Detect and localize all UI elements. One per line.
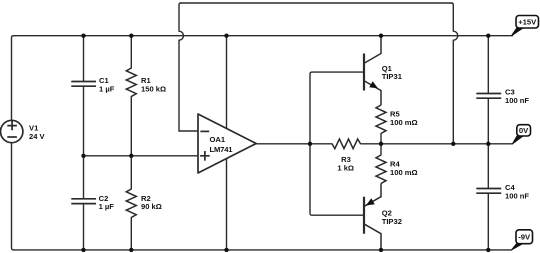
wire R2 branch xyxy=(130,156,132,250)
label Q1 xyxy=(382,64,403,81)
svg-text:150 kΩ: 150 kΩ xyxy=(141,85,166,94)
resistor R2 xyxy=(126,189,136,218)
svg-text:-9V: -9V xyxy=(518,233,531,242)
wire mid vertical through op-amp xyxy=(226,36,228,250)
svg-text:24 V: 24 V xyxy=(29,132,46,141)
power flag 0V xyxy=(513,125,531,144)
wire R5-R4 junction leads xyxy=(380,134,382,156)
label R1 xyxy=(141,76,166,93)
transistor Q1 xyxy=(364,36,381,105)
label R4 xyxy=(390,159,418,177)
node mid rail / R1-R2 xyxy=(129,154,133,158)
wire base line xyxy=(310,72,363,215)
wire top rail xyxy=(14,35,513,37)
wire feedback right vertical with hop xyxy=(451,3,458,144)
wire mid rail (+ input) xyxy=(84,155,199,157)
wire minus input stub xyxy=(179,130,198,132)
svg-text:100 mΩ: 100 mΩ xyxy=(390,168,418,177)
wire bottom rail xyxy=(14,249,512,251)
resistor R5 xyxy=(376,105,386,134)
svg-text:90 kΩ: 90 kΩ xyxy=(141,202,162,211)
node output / base line xyxy=(308,142,312,146)
voltage source V1 xyxy=(1,120,46,142)
node bottom rail / C2 xyxy=(81,248,85,252)
node top rail / Q1 collector xyxy=(379,34,383,38)
op-amp OA1 xyxy=(198,114,256,173)
label R5 xyxy=(390,109,418,127)
node top rail / R1 xyxy=(129,34,133,38)
capacitor C3 xyxy=(476,94,501,99)
label R2 xyxy=(141,194,162,211)
svg-text:1 µF: 1 µF xyxy=(99,202,115,211)
svg-text:1 µF: 1 µF xyxy=(99,85,115,94)
node bottom rail / mid vertical xyxy=(224,248,228,252)
wire C3 branch xyxy=(487,36,489,144)
svg-text:100 nF: 100 nF xyxy=(505,96,529,105)
svg-text:TIP32: TIP32 xyxy=(382,217,402,226)
svg-text:0V: 0V xyxy=(519,126,529,135)
svg-text:100 nF: 100 nF xyxy=(505,192,529,201)
label C1 xyxy=(99,76,115,93)
resistor R4 xyxy=(376,155,386,184)
capacitor C2 xyxy=(71,199,96,204)
label Q2 xyxy=(382,209,402,226)
resistor R3 xyxy=(332,139,361,149)
node bottom rail / Q2 collector xyxy=(379,248,383,252)
node top rail / C3 xyxy=(486,34,490,38)
wire left column xyxy=(12,36,14,250)
svg-text:1 kΩ: 1 kΩ xyxy=(337,163,354,172)
node output / R5-R4 xyxy=(379,142,383,146)
node bottom rail / R2 xyxy=(129,248,133,252)
power flag -9V xyxy=(512,230,533,250)
wire output rail xyxy=(256,143,512,145)
svg-text:+15V: +15V xyxy=(518,18,537,27)
resistor R1 xyxy=(126,68,136,96)
wire C1 branch xyxy=(83,36,85,156)
node output / C3-C4 xyxy=(486,142,490,146)
node top rail / C1 xyxy=(81,34,85,38)
svg-text:LM741: LM741 xyxy=(210,145,234,154)
node output / feedback xyxy=(451,142,455,146)
wire R1 branch xyxy=(130,36,132,156)
wire C2 branch xyxy=(83,156,85,250)
power flag +15V xyxy=(512,16,539,36)
svg-text:OA1: OA1 xyxy=(210,135,226,144)
node top rail / mid vertical xyxy=(224,34,228,38)
capacitor C1 xyxy=(71,82,96,87)
wire feedback top xyxy=(181,2,451,4)
label R3 xyxy=(337,155,354,173)
label C3 xyxy=(505,88,529,106)
wire C4 branch xyxy=(487,144,489,250)
wire feedback left vertical with hop xyxy=(179,3,184,131)
node bottom rail / C4 xyxy=(486,248,490,252)
label C4 xyxy=(505,183,529,200)
capacitor C4 xyxy=(476,189,501,194)
svg-text:TIP31: TIP31 xyxy=(382,72,403,81)
label C2 xyxy=(99,194,115,211)
svg-text:100 mΩ: 100 mΩ xyxy=(390,118,418,127)
node mid rail / C1-C2 xyxy=(81,154,85,158)
transistor Q2 xyxy=(364,184,381,250)
